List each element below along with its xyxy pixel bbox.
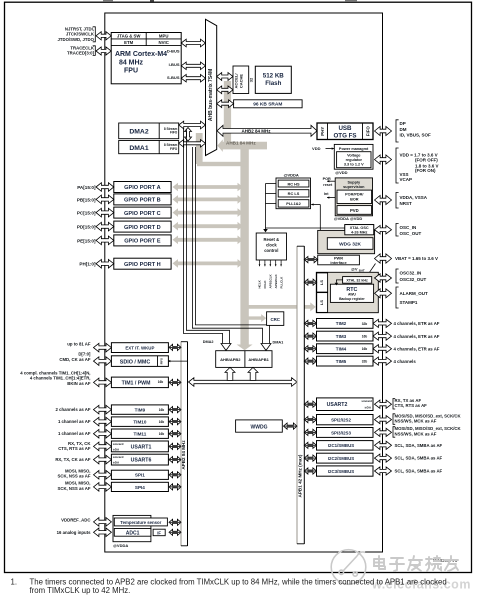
- svg-text:FPU: FPU: [124, 68, 138, 75]
- svg-text:XTAL OSC: XTAL OSC: [350, 226, 369, 230]
- svg-text:NVIC: NVIC: [159, 40, 169, 45]
- svg-text:@VDDA: @VDDA: [113, 543, 128, 548]
- svg-text:VCAP: VCAP: [400, 177, 413, 182]
- svg-text:1 channel as AF: 1 channel as AF: [58, 419, 91, 424]
- svg-text:NSS/WS, MCK as AF: NSS/WS, MCK as AF: [395, 431, 437, 436]
- svg-text:TIM2: TIM2: [336, 321, 347, 326]
- svg-text:OSC32_OUT: OSC32_OUT: [400, 277, 427, 282]
- svg-text:PH[1:0]: PH[1:0]: [79, 262, 96, 267]
- svg-text:smcard: smcard: [113, 442, 124, 446]
- svg-text:SCK, NSS as AF: SCK, NSS as AF: [57, 474, 90, 479]
- svg-text:WDG 32K: WDG 32K: [339, 242, 361, 248]
- svg-text:CRC: CRC: [270, 317, 280, 322]
- svg-text:4 channels, ETR as AF: 4 channels, ETR as AF: [394, 346, 440, 351]
- svg-text:FIFO: FIFO: [366, 126, 371, 137]
- svg-text:I2C2/SMBUS: I2C2/SMBUS: [328, 456, 354, 461]
- svg-text:4-26 MHz: 4-26 MHz: [351, 230, 368, 234]
- svg-text:XTAL 32 kHz: XTAL 32 kHz: [346, 279, 368, 283]
- svg-text:Flash: Flash: [265, 80, 281, 87]
- svg-text:VDDA, VSSA: VDDA, VSSA: [400, 195, 428, 200]
- svg-text:GPIO PORT B: GPIO PORT B: [124, 198, 161, 204]
- svg-text:PLLCLK: PLLCLK: [279, 276, 283, 289]
- svg-text:2 channels as AF: 2 channels as AF: [56, 407, 91, 412]
- svg-text:OSC_OUT: OSC_OUT: [400, 231, 422, 236]
- svg-text:EXT IT. WKUP: EXT IT. WKUP: [125, 346, 154, 351]
- svg-text:RC LS: RC LS: [288, 191, 300, 196]
- svg-text:16b: 16b: [159, 432, 165, 436]
- svg-text:RX, TX, CK as AF: RX, TX, CK as AF: [55, 457, 91, 462]
- svg-text:OSC_IN: OSC_IN: [400, 225, 417, 230]
- svg-text:CTS, RTS as AF: CTS, RTS as AF: [395, 403, 428, 408]
- svg-text:VDD: VDD: [312, 146, 321, 151]
- svg-text:STAMP1: STAMP1: [400, 300, 418, 305]
- svg-text:interface: interface: [330, 260, 347, 265]
- svg-text:regulator: regulator: [346, 158, 363, 162]
- svg-text:USART6: USART6: [131, 458, 152, 464]
- svg-text:ALARM_OUT: ALARM_OUT: [400, 291, 428, 296]
- svg-text:TIM5: TIM5: [336, 359, 347, 364]
- svg-text:smcard: smcard: [361, 399, 372, 403]
- svg-text:GPIO PORT A: GPIO PORT A: [124, 185, 160, 191]
- svg-text:clock: clock: [266, 243, 277, 248]
- svg-text:USART1: USART1: [131, 445, 152, 451]
- svg-text:APB1 42 MHz (max): APB1 42 MHz (max): [297, 454, 302, 497]
- svg-text:APB2 84 MHz: APB2 84 MHz: [181, 440, 186, 470]
- svg-text:SPI2/I2S2: SPI2/I2S2: [331, 417, 351, 422]
- svg-text:TIM3: TIM3: [336, 334, 347, 339]
- svg-text:JTAG & SW: JTAG & SW: [117, 34, 141, 39]
- svg-text:GPIO PORT E: GPIO PORT E: [124, 239, 161, 245]
- svg-text:IF: IF: [157, 530, 161, 535]
- svg-text:SCL, SDA, SMBA as AF: SCL, SDA, SMBA as AF: [395, 468, 443, 473]
- svg-text:AHB bus-matrix 7S4M: AHB bus-matrix 7S4M: [208, 69, 214, 121]
- svg-text:AHB/APB2: AHB/APB2: [220, 357, 241, 362]
- svg-text:D-BUS: D-BUS: [167, 49, 180, 54]
- svg-text:up to 81 AF: up to 81 AF: [67, 342, 91, 347]
- svg-text:GPIO PORT H: GPIO PORT H: [124, 262, 161, 268]
- svg-text:PA[15:0]: PA[15:0]: [77, 185, 96, 190]
- svg-text:APB1CLK: APB1CLK: [269, 273, 273, 288]
- svg-text:4 channels, ETR as AF: 4 channels, ETR as AF: [394, 321, 440, 326]
- svg-text:NJTRST, JTDI,: NJTRST, JTDI,: [65, 26, 94, 31]
- svg-text:512 KB: 512 KB: [263, 73, 285, 80]
- svg-text:FIFO: FIFO: [170, 147, 178, 151]
- svg-text:smcard: smcard: [113, 455, 124, 459]
- svg-text:PHY: PHY: [320, 127, 325, 136]
- svg-text:SPI3/I2S3: SPI3/I2S3: [331, 430, 351, 435]
- svg-text:TIM9: TIM9: [135, 408, 146, 413]
- svg-text:DMA2: DMA2: [203, 340, 214, 344]
- svg-text:SCK, NSS as AF: SCK, NSS as AF: [57, 486, 90, 491]
- svg-text:DMA1: DMA1: [129, 145, 148, 152]
- svg-text:GPIO PORT D: GPIO PORT D: [124, 225, 161, 231]
- svg-text:NRST: NRST: [400, 201, 413, 206]
- svg-text:TIM11: TIM11: [134, 432, 147, 437]
- svg-text:USB: USB: [338, 125, 352, 132]
- svg-text:ETM: ETM: [124, 40, 133, 45]
- svg-text:DM: DM: [400, 127, 407, 132]
- svg-text:4 channels, ETR as AF: 4 channels, ETR as AF: [394, 334, 440, 339]
- svg-text:VDDREF_ADC: VDDREF_ADC: [61, 518, 90, 523]
- svg-text:32b: 32b: [362, 360, 368, 364]
- svg-text:control: control: [264, 248, 278, 253]
- svg-text:irDA: irDA: [113, 461, 120, 465]
- svg-text:AWU: AWU: [348, 292, 356, 296]
- svg-text:TIM4: TIM4: [336, 347, 347, 352]
- svg-text:JTDO/SWD, JTDO: JTDO/SWD, JTDO: [57, 37, 94, 42]
- svg-text:@VDD: @VDD: [335, 170, 347, 175]
- svg-text:POR/PDR/: POR/PDR/: [345, 193, 364, 197]
- svg-text:TRACECLK: TRACECLK: [70, 45, 95, 50]
- svg-text:16b: 16b: [159, 408, 165, 412]
- svg-text:ID, VBUS, SOF: ID, VBUS, SOF: [400, 133, 432, 138]
- svg-text:S-BUS: S-BUS: [167, 75, 180, 80]
- svg-text:PC[15:0]: PC[15:0]: [77, 211, 96, 216]
- svg-text:CMD, CK as AF: CMD, CK as AF: [59, 357, 90, 362]
- svg-text:PLL1&2: PLL1&2: [286, 201, 301, 206]
- svg-text:TRACED[3:0]: TRACED[3:0]: [67, 51, 95, 56]
- svg-text:16b: 16b: [158, 380, 164, 384]
- svg-text:3.3 to 1.2 V: 3.3 to 1.2 V: [344, 163, 364, 167]
- svg-text:SDIO / MMC: SDIO / MMC: [120, 359, 151, 365]
- svg-text:AHB2 84 MHz: AHB2 84 MHz: [241, 129, 271, 134]
- svg-text:TIM10: TIM10: [133, 420, 146, 425]
- svg-text:LS: LS: [319, 300, 324, 305]
- svg-text:4 channels: 4 channels: [394, 359, 417, 364]
- svg-text:VBAT = 1.65 to 3.6 V: VBAT = 1.65 to 3.6 V: [395, 256, 438, 261]
- svg-text:FIFO: FIFO: [170, 131, 178, 135]
- svg-text:(FOR OFF): (FOR OFF): [415, 157, 438, 162]
- svg-text:FCLK: FCLK: [263, 280, 267, 289]
- svg-text:USART2: USART2: [327, 402, 348, 408]
- svg-text:SPI4: SPI4: [135, 485, 145, 490]
- svg-text:ARM Cortex-M4: ARM Cortex-M4: [115, 51, 167, 58]
- svg-text:POR: POR: [323, 177, 331, 181]
- svg-text:WWDG: WWDG: [251, 424, 268, 430]
- svg-text:Reset &: Reset &: [264, 237, 280, 242]
- svg-text:irDA: irDA: [113, 447, 120, 451]
- svg-text:Supply: Supply: [347, 181, 361, 185]
- svg-text:84 MHz: 84 MHz: [119, 59, 144, 66]
- svg-text:32b: 32b: [362, 322, 368, 326]
- svg-text:PB[15:0]: PB[15:0]: [77, 197, 96, 202]
- svg-text:JTCK/SWCLK: JTCK/SWCLK: [66, 32, 95, 37]
- svg-text:AHB/APB1: AHB/APB1: [248, 357, 269, 362]
- svg-text:LS: LS: [319, 280, 324, 285]
- svg-text:TIM1 / PWM: TIM1 / PWM: [122, 381, 151, 387]
- svg-text:SCL, SDA, SMBA as AF: SCL, SDA, SMBA as AF: [395, 456, 443, 461]
- svg-text:from TIMxCLK up to 42 MHz.: from TIMxCLK up to 42 MHz.: [30, 586, 131, 595]
- svg-text:AHB1 84 MHz: AHB1 84 MHz: [226, 141, 256, 146]
- svg-text:supervision: supervision: [343, 185, 365, 189]
- svg-text:DMA1: DMA1: [273, 341, 284, 345]
- svg-text:@V: @V: [351, 266, 358, 271]
- svg-text:1.: 1.: [11, 578, 18, 587]
- svg-text:FIFO: FIFO: [160, 357, 164, 364]
- svg-text:DP: DP: [400, 121, 406, 126]
- svg-text:PD[15:0]: PD[15:0]: [77, 225, 96, 230]
- svg-text:NSS/WS, MCK as AF: NSS/WS, MCK as AF: [395, 419, 437, 424]
- svg-text:@VDDA @VDD: @VDDA @VDD: [334, 216, 363, 221]
- svg-text:DMA2: DMA2: [129, 129, 148, 136]
- svg-text:SPI1: SPI1: [135, 473, 145, 478]
- svg-text:APB2CLK: APB2CLK: [274, 273, 278, 288]
- svg-text:16b: 16b: [362, 347, 368, 351]
- svg-text:16b: 16b: [159, 420, 165, 424]
- svg-text:BOR: BOR: [350, 197, 359, 201]
- svg-text:BAT: BAT: [359, 268, 365, 272]
- svg-text:BKIN as AF: BKIN as AF: [67, 381, 91, 386]
- svg-text:Power managmt: Power managmt: [339, 147, 369, 151]
- svg-text:1 channel as AF: 1 channel as AF: [58, 431, 91, 436]
- svg-text:GPIO PORT C: GPIO PORT C: [124, 211, 161, 217]
- svg-text:OSC32_IN: OSC32_IN: [400, 270, 422, 275]
- svg-text:SCL, SDA, SMBA as AF: SCL, SDA, SMBA as AF: [395, 443, 443, 448]
- svg-text:RC HS: RC HS: [287, 181, 300, 186]
- svg-text:PE[15:0]: PE[15:0]: [77, 238, 96, 243]
- svg-text:ADC1: ADC1: [126, 531, 140, 537]
- svg-text:HCLK: HCLK: [258, 279, 262, 288]
- svg-text:I2C3/SMBUS: I2C3/SMBUS: [328, 469, 354, 474]
- svg-text:I-BUS: I-BUS: [169, 62, 180, 67]
- svg-text:I2C1/SMBUS: I2C1/SMBUS: [328, 443, 354, 448]
- svg-text:96 KB SRAM: 96 KB SRAM: [253, 102, 282, 108]
- svg-text:MPU: MPU: [159, 34, 169, 39]
- svg-text:(FOR ON): (FOR ON): [415, 168, 436, 173]
- svg-text:RX, TX as AF: RX, TX as AF: [395, 398, 422, 403]
- svg-text:Temperature sensor: Temperature sensor: [120, 520, 161, 525]
- svg-text:32: 32: [249, 77, 254, 82]
- svg-text:reset: reset: [323, 183, 333, 187]
- svg-text:@VDDA: @VDDA: [284, 172, 299, 177]
- svg-text:Int: Int: [324, 192, 329, 196]
- svg-text:16 analog inputs: 16 analog inputs: [57, 530, 92, 535]
- svg-text:16b: 16b: [362, 335, 368, 339]
- svg-text:Voltage: Voltage: [347, 154, 360, 158]
- svg-text:OTG FS: OTG FS: [333, 132, 356, 139]
- svg-text:CACHE: CACHE: [239, 74, 244, 89]
- svg-text:Backup register: Backup register: [339, 297, 365, 301]
- svg-text:CTS, RTS as AF: CTS, RTS as AF: [58, 446, 91, 451]
- svg-text:PVD: PVD: [350, 208, 359, 213]
- svg-text:irDA: irDA: [365, 406, 372, 410]
